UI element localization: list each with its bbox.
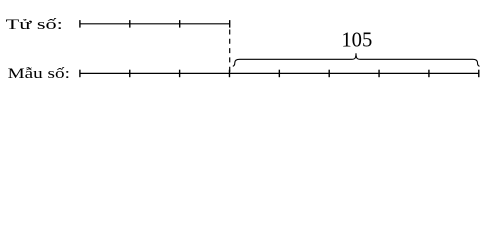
svg-text:Tử số:: Tử số: [6,17,63,33]
numerator tick 2 [129,20,131,28]
denominator tick 7 [378,70,380,78]
brace over difference (105 units) [233,53,480,66]
denominator tick 6 [328,70,330,78]
numerator end tick left [79,20,81,28]
denominator tick 5 [278,70,280,78]
svg-text:105: 105 [341,30,372,52]
dashed projection line [229,30,231,73]
denominator end tick left [79,70,81,78]
numerator bar line [80,23,230,25]
denominator tick 3 [179,70,181,78]
numerator tick 3 [179,20,181,28]
denominator bar line [80,72,479,74]
svg-text:Mẫu số:: Mẫu số: [8,66,70,82]
denominator end tick right [478,70,480,78]
denominator tick 4 [228,70,230,78]
denominator tick 2 [129,70,131,78]
numerator end tick right [229,20,231,28]
denominator tick 8 [428,70,430,78]
